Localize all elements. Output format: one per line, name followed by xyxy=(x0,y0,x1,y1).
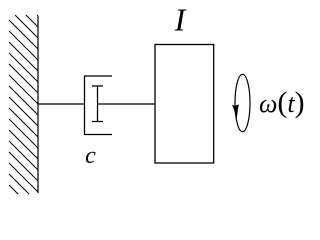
damper c piston xyxy=(92,86,103,122)
svg-text:ω(t): ω(t) xyxy=(259,86,305,119)
wire from damper piston to inertia block xyxy=(98,103,156,105)
wire from wall to damper xyxy=(38,103,85,105)
wall xyxy=(37,16,39,193)
rotation arrow ellipse xyxy=(235,74,250,131)
svg-text:c: c xyxy=(85,143,96,169)
inertia block I xyxy=(155,45,214,164)
svg-text:I: I xyxy=(174,2,187,38)
rotation arrowhead xyxy=(232,104,239,118)
wall hatching xyxy=(9,15,38,194)
damper c housing (cylinder) xyxy=(85,76,113,135)
